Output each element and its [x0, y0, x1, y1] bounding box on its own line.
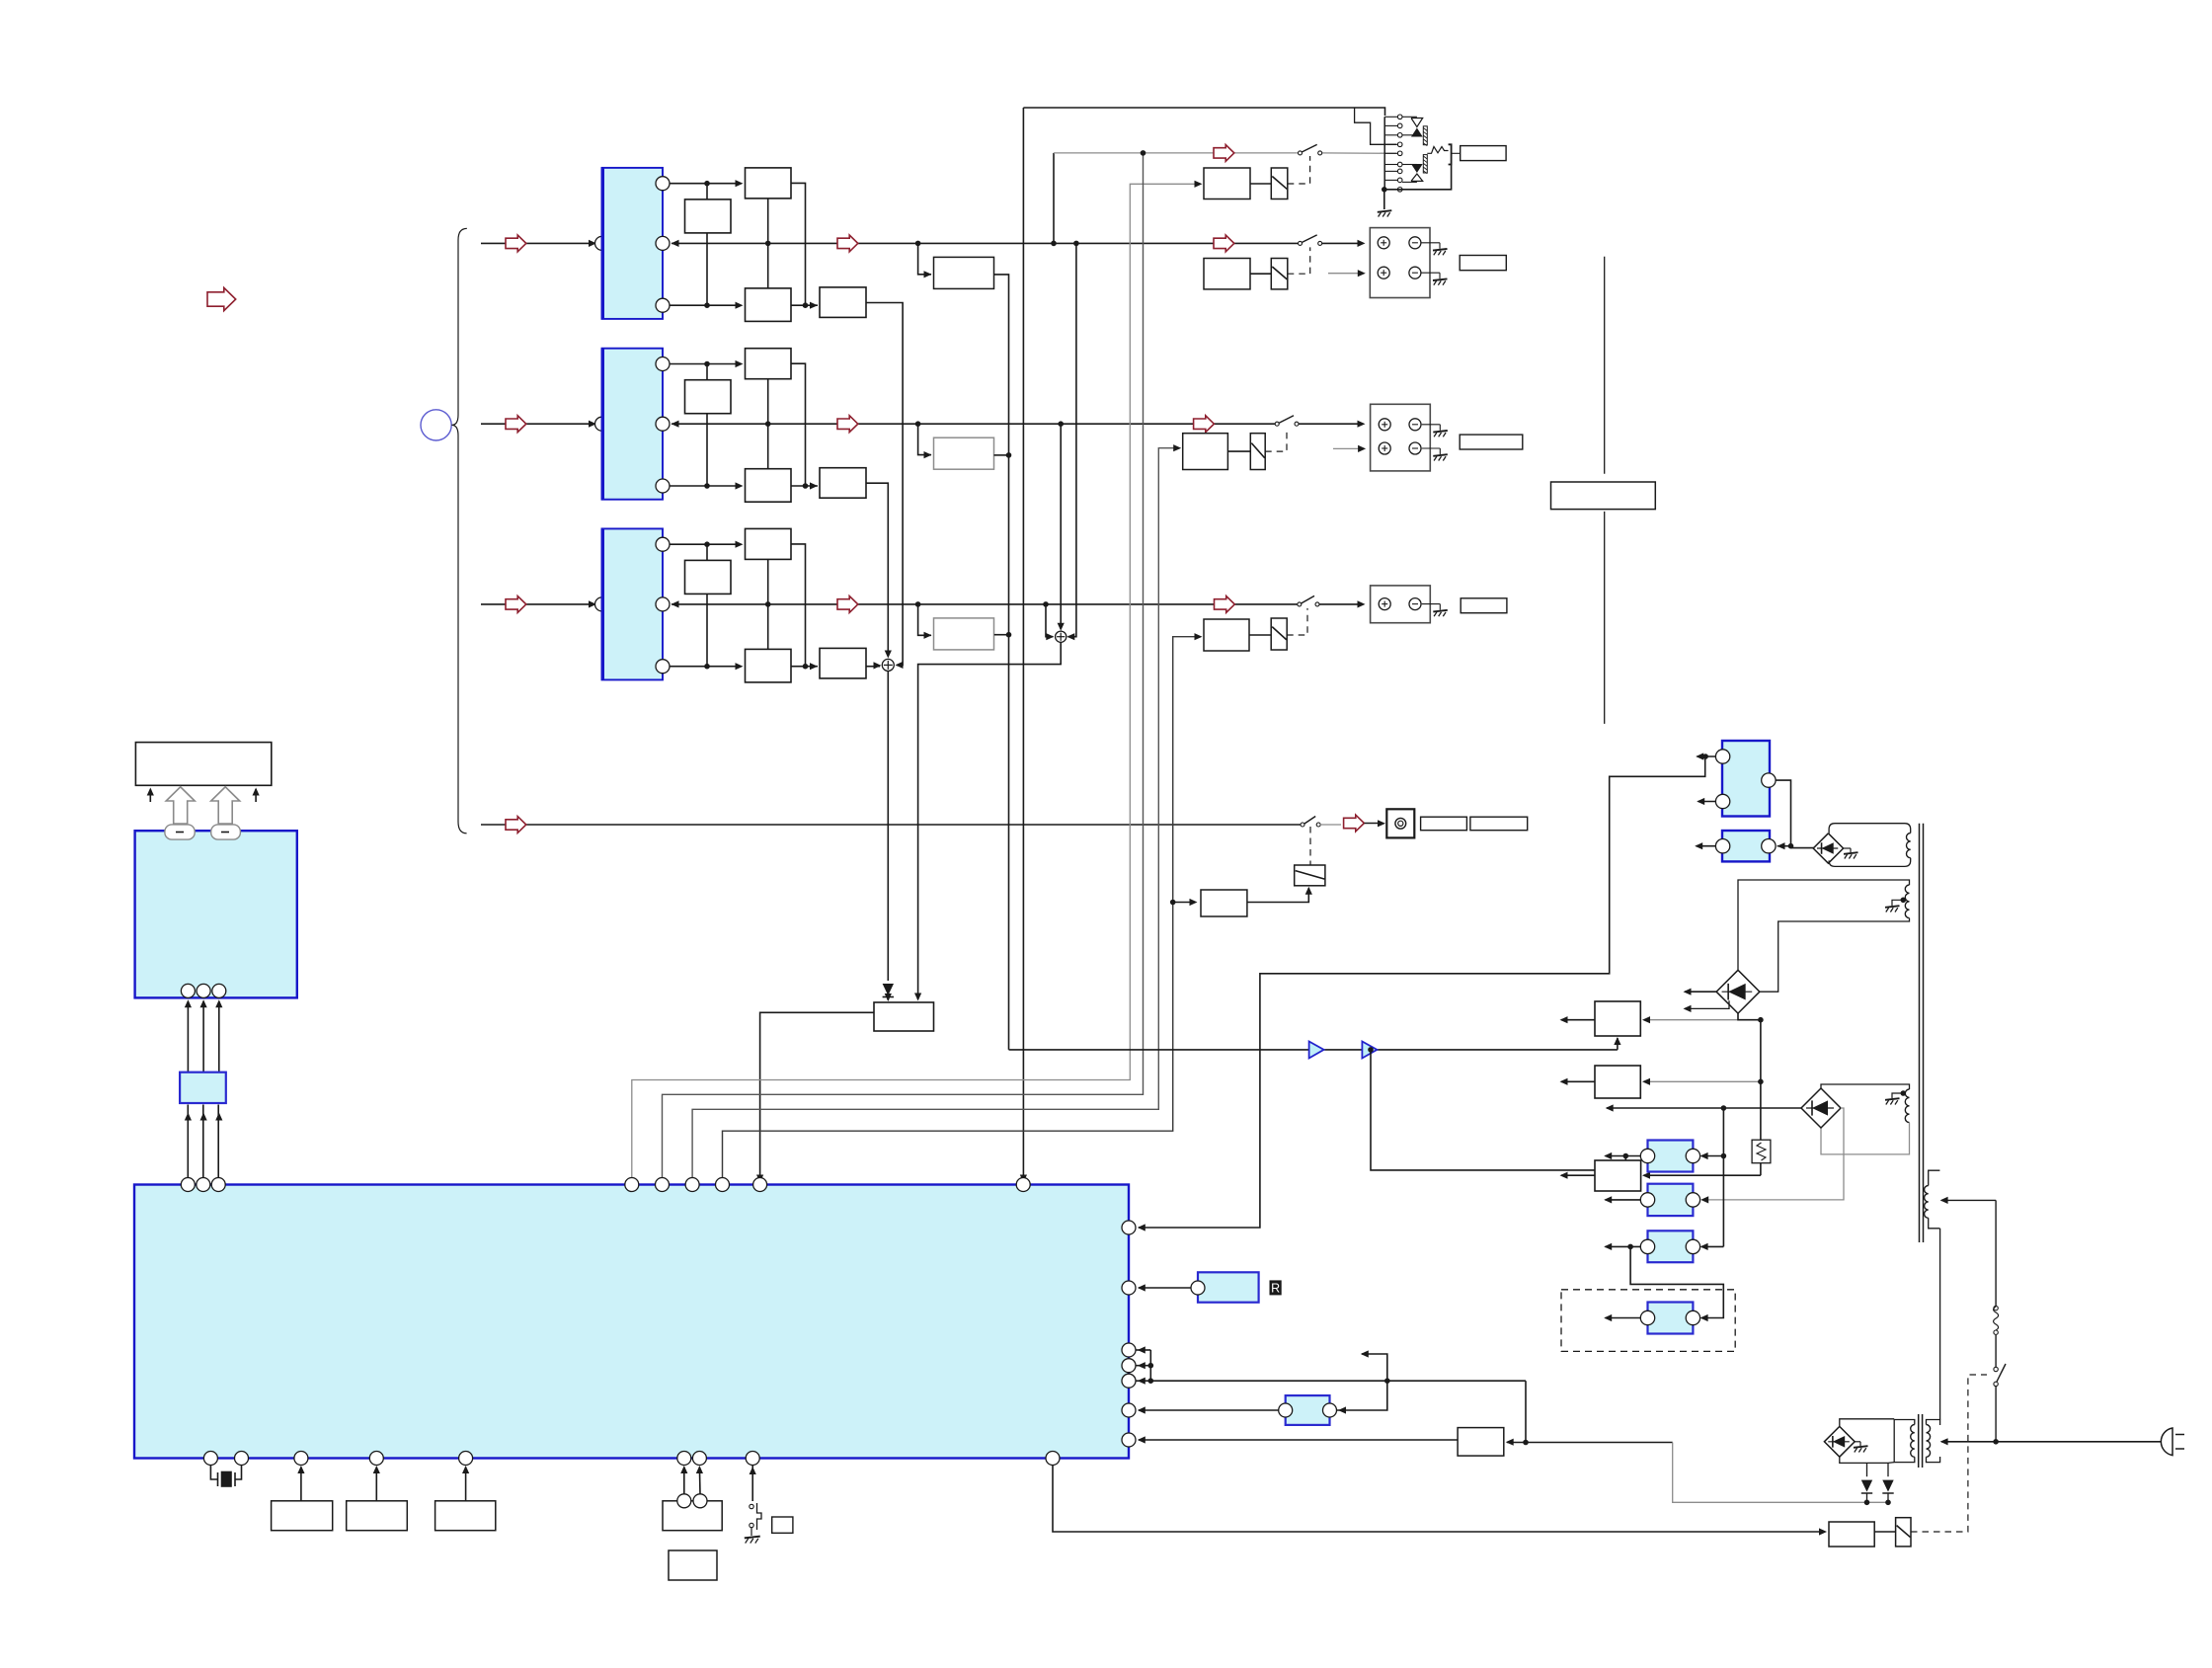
jack insulator hatch bottom [1423, 155, 1427, 173]
jack sleeve return wire [1384, 165, 1452, 190]
display thin arrow right [255, 789, 257, 802]
O3 right wire [1701, 1245, 1724, 1247]
W2 top wire to BR2 [1738, 880, 1910, 970]
terminal ground wire [1421, 242, 1440, 244]
jack insulator hatch top [1423, 126, 1427, 145]
center rail wire [671, 603, 1300, 605]
service block B [347, 1501, 408, 1531]
speaker mute relay [1271, 259, 1288, 289]
wire bottom pin to R3 [670, 666, 740, 668]
wire sleeve to label [1452, 152, 1461, 154]
terminal ground wire [1421, 272, 1440, 274]
bridge rectifier BR1 [1813, 834, 1843, 863]
DSP right pins [1122, 1221, 1136, 1234]
jack switch triangle filled bottom [1411, 164, 1423, 173]
preamp pin out bottom [656, 298, 670, 312]
surround rail out arrow [1194, 416, 1215, 433]
headphone jack ground [1378, 210, 1392, 212]
svg-text:R: R [1271, 1281, 1280, 1295]
W3 top wire to BR3 [1821, 1084, 1910, 1089]
winding W2 coil [1905, 885, 1909, 918]
sum node S3 top input [1060, 424, 1062, 629]
P1 top pin wire [1698, 755, 1716, 757]
wires front-end to filter block [187, 1001, 189, 1072]
terminal plus [1379, 442, 1390, 454]
wire standby feed to DSP [1139, 757, 1705, 1228]
terminal minus [1409, 442, 1421, 454]
O4 feed jog [1630, 1246, 1723, 1317]
wire mute to relay [1250, 183, 1271, 185]
wire C to DSP [465, 1468, 467, 1501]
display thin arrow left [149, 789, 151, 802]
bus pad 2 [211, 825, 241, 839]
front rail wire [671, 242, 1301, 244]
primary return wire [1939, 1229, 1941, 1420]
subwoofer out arrow [1344, 815, 1365, 832]
terminal plus [1379, 598, 1390, 610]
wire R3 out junction [791, 666, 818, 668]
center rail mid arrow [837, 596, 858, 613]
rectifier diode Da [1866, 1463, 1868, 1476]
power control bus [1150, 1380, 1526, 1382]
W2 center tap [1901, 898, 1907, 904]
wire mute to relay [1227, 450, 1250, 452]
winding W1 coil [1907, 834, 1911, 858]
wire top pin to filter [670, 363, 740, 365]
rectifier diode Db [1887, 1463, 1889, 1476]
bridge rectifier BR2 [1716, 970, 1760, 1013]
terminal plus [1378, 267, 1389, 278]
surge resistor [1752, 1140, 1771, 1163]
preamp block IC [602, 349, 664, 500]
O3 left wire [1606, 1245, 1641, 1247]
V2 input wire [1644, 1080, 1761, 1082]
DSP bottom pins [203, 1452, 217, 1466]
wire sub mute to relay [1247, 888, 1308, 903]
jack switch triangle open top [1411, 119, 1423, 127]
AC detect block [1458, 1428, 1504, 1457]
W3 center tap [1901, 1090, 1907, 1096]
sum node S1 [882, 659, 894, 671]
speaker mute relay [1250, 434, 1265, 470]
wire junction to block R2 [706, 184, 708, 199]
block R1 [746, 528, 792, 559]
wire bottom pin to R3 [670, 485, 740, 487]
relay dashed control [1288, 247, 1310, 274]
winding W3 coil [1905, 1089, 1909, 1123]
bridge rectifier BR4 [1824, 1426, 1855, 1457]
O4 left wire [1606, 1317, 1641, 1319]
standby opto dashed box [1561, 1290, 1735, 1352]
block R2 [685, 560, 732, 594]
jack sleeve bracket [1449, 144, 1452, 164]
standby transformer core [1918, 1414, 1920, 1468]
speaker terminal block [1371, 404, 1431, 471]
speaker cable line [1604, 257, 1606, 474]
wire remote to DSP [1139, 1287, 1191, 1289]
wire R1 right bypass [791, 363, 806, 486]
O1 left wire [1606, 1155, 1641, 1157]
main winding W1 loop [1829, 824, 1911, 834]
speaker cable label [1551, 482, 1656, 510]
T2 primary coil [1911, 1425, 1915, 1458]
preamp pin feedback mid [656, 417, 670, 431]
V2 output arrow [1561, 1080, 1595, 1082]
filter block [180, 1072, 226, 1103]
audio input connector circle [421, 410, 451, 440]
block R3 [746, 469, 792, 503]
block R1 [746, 349, 792, 379]
BR3 main output [1607, 1107, 1801, 1109]
mains line from plug [1941, 1441, 2163, 1443]
key block pins [677, 1494, 691, 1508]
AC plug [2161, 1428, 2172, 1456]
opto feedback block [1286, 1395, 1330, 1425]
remote sensor block [1198, 1272, 1259, 1302]
wire junction to block R2 [706, 544, 708, 560]
V1 input wire [1644, 1019, 1761, 1021]
input arrow [506, 596, 526, 613]
wires filter to DSP [187, 1105, 189, 1182]
preamp pin feedback mid [656, 236, 670, 250]
AC sense line to transformer [1673, 1443, 1888, 1503]
front-end IC block [135, 831, 297, 997]
T2 secondary coil [1927, 1425, 1931, 1458]
subwoofer input arrow [506, 817, 526, 834]
terminal plus [1379, 419, 1390, 431]
level bus ch1 segment [994, 275, 1009, 1050]
wire R2 to bottom junction [706, 233, 708, 305]
mains fuse [1994, 1330, 1998, 1334]
wire R1 to R3 vertical [767, 379, 769, 469]
BR3 to opto feed [1702, 1108, 1845, 1200]
wire mute to relay [1250, 273, 1271, 275]
preamp pin out top [656, 177, 670, 191]
headphone line L2 post switch [1320, 152, 1396, 154]
relay dashed control [1287, 608, 1307, 635]
BR1 ground [1844, 852, 1858, 854]
block R4 [820, 287, 866, 318]
wire R2 to bottom junction [706, 414, 708, 486]
V3 output arrow [1561, 1174, 1595, 1176]
headphone line L1 top [1023, 108, 1384, 116]
terminal ground [1433, 278, 1448, 280]
speaker terminal block [1370, 228, 1430, 298]
headphone mute relay [1271, 168, 1288, 199]
headphone jack contacts [1384, 116, 1397, 118]
power button [751, 1466, 753, 1502]
wire AC line to AC detect [1507, 1442, 1673, 1444]
speaker switch [1298, 602, 1302, 606]
speaker label box [1460, 435, 1523, 449]
rail junction to level block [918, 243, 931, 274]
remote sensor pin [1191, 1281, 1205, 1295]
wire to P2 right pin [1777, 845, 1791, 847]
opto coupler O1 [1648, 1141, 1694, 1172]
speaker mute amp [1204, 259, 1250, 289]
sub mute amp [1201, 890, 1247, 916]
wire opto to power bus [1337, 1381, 1387, 1410]
V3 input wire [1644, 1174, 1761, 1176]
sub mute relay [1295, 865, 1325, 886]
wire A to DSP [300, 1468, 302, 1501]
rail junction to level block [918, 604, 931, 635]
W3 ground [1885, 1098, 1900, 1100]
W2 bottom wire to BR2 [1760, 918, 1910, 993]
terminal ground [1433, 610, 1448, 612]
headphone gray line L2 [1054, 152, 1301, 154]
front-end pins bottom [181, 984, 195, 997]
DSP route to center and sub mutes [723, 637, 1201, 1181]
regulator V3 [1595, 1160, 1641, 1191]
terminal ground wire [1422, 447, 1441, 449]
wire R1 right bypass [791, 544, 806, 667]
wire switch to terminal [1319, 603, 1362, 605]
BR1 ground stub [1844, 847, 1851, 849]
wire R3 out junction [791, 304, 818, 306]
wire R1 right bypass [791, 183, 806, 305]
wire switch to terminal [1322, 242, 1362, 244]
transformer core [1919, 824, 1921, 1242]
wire junction to block R2 [706, 364, 708, 380]
speaker label box [1460, 256, 1506, 271]
front rail tap to headphone line [1053, 153, 1055, 244]
O2 left wire [1606, 1199, 1641, 1201]
ch2 R4 output wire to sum node S1 [866, 483, 888, 656]
bus hollow arrow 2 [211, 787, 240, 824]
speaker mute relay [1271, 618, 1287, 650]
level block R5 [934, 257, 994, 288]
terminal minus [1409, 267, 1421, 278]
O1 right wire [1701, 1155, 1724, 1157]
subwoofer line wire [481, 824, 1303, 826]
ch1 R4 output wire to sum node S1 [866, 303, 903, 666]
opto feed drop [1722, 1108, 1724, 1246]
headphone jack common bar [1383, 117, 1385, 190]
wire R3 out junction [791, 485, 818, 487]
wire bottom pin to R3 [670, 304, 740, 306]
jack switch triangle open bottom [1411, 174, 1423, 181]
wire opto to DSP [1139, 1409, 1279, 1411]
key block F [669, 1550, 717, 1580]
mains switch [1995, 1387, 1997, 1442]
opto coupler O2 [1648, 1184, 1694, 1216]
relay dashed control to switch [1288, 156, 1310, 184]
level bus ch3 join [994, 634, 1009, 636]
preamp pin out top [656, 357, 670, 371]
P1 right pin to bridge [1776, 780, 1790, 846]
jack ring feed jog [1355, 108, 1396, 145]
standby supply block P2 [1722, 831, 1770, 861]
wire top pin to filter [670, 183, 740, 185]
wire arrow to sub jack [1365, 823, 1382, 825]
service block C [435, 1501, 496, 1531]
key block D [663, 1501, 722, 1531]
jack tip resistor zigzag [1427, 147, 1448, 154]
DSP route to headphone mute [632, 184, 1200, 1181]
terminal minus [1409, 419, 1421, 431]
feedback rail arrowhead [671, 421, 679, 428]
opto coupler O3 [1648, 1231, 1694, 1262]
wire dot to bridge BR1 [1791, 847, 1815, 849]
jack contact wires to tip/ring [1402, 116, 1417, 118]
terminal ground wire [1422, 603, 1441, 605]
feedback rail arrowhead [671, 600, 679, 607]
speaker mute amp [1204, 619, 1249, 651]
surround rail wire [671, 423, 1277, 425]
regulator V1 [1595, 1001, 1640, 1036]
DSP top pins [181, 1178, 195, 1192]
W2 ground [1885, 906, 1900, 908]
BR4 bottom rail [1840, 1457, 1888, 1463]
headphone line L1 drop to DSP [1022, 108, 1024, 1181]
input arrow [506, 235, 526, 252]
block R2 [685, 380, 732, 414]
BR2 output arrow 1 [1685, 991, 1716, 993]
input wire [481, 242, 592, 244]
terminal ground wire [1422, 424, 1441, 426]
headphone label box [1461, 146, 1506, 161]
remote badge [1270, 1280, 1282, 1295]
speaker label box [1461, 598, 1507, 613]
terminal ground [1433, 454, 1448, 456]
headphone line out arrow [1214, 145, 1234, 162]
bass sum block [874, 1002, 934, 1031]
buffer triangle 1 [1309, 1042, 1324, 1059]
BR4 ground stub [1855, 1441, 1860, 1443]
jack switch triangle filled top [1411, 128, 1423, 137]
wire bus to regulator V1 [1617, 1038, 1619, 1050]
wires keys to DSP [683, 1468, 685, 1494]
power button ground [745, 1537, 760, 1539]
sub mute feed junction [1170, 900, 1176, 906]
service block A [272, 1501, 333, 1531]
wire driver to relay [1874, 1531, 1895, 1533]
sub label box 2 [1470, 817, 1528, 831]
DSP route to surround mute [692, 448, 1179, 1181]
speaker terminal block [1371, 586, 1431, 623]
rail junction to level block [918, 424, 931, 454]
S1 output wire [887, 671, 889, 981]
preamp pin feedback mid [656, 597, 670, 611]
lower terminal feed [1333, 447, 1363, 449]
input brace [451, 228, 466, 833]
W3 bottom wire to BR3 [1821, 1123, 1910, 1154]
power relay driver block [1829, 1522, 1874, 1547]
power control branch arrow [1362, 1354, 1387, 1381]
bus pad 1 [165, 825, 195, 839]
preamp pin out bottom [656, 479, 670, 493]
wire top pin to filter [670, 543, 740, 545]
input arrow [506, 416, 526, 433]
jack ground wire [1383, 190, 1385, 209]
center rail out arrow [1215, 596, 1235, 613]
speaker switch [1299, 241, 1303, 245]
sum node S3 input from center rail [1046, 604, 1054, 637]
speaker switch [1275, 422, 1279, 426]
legend input arrow [207, 287, 236, 310]
headphone switch [1299, 151, 1303, 155]
front rail out arrow [1214, 235, 1234, 252]
BR4 top wire [1840, 1419, 1894, 1427]
subwoofer output jack [1386, 809, 1414, 837]
regulator V2 [1595, 1066, 1640, 1098]
P2 left pin wire [1697, 845, 1716, 847]
sum node S3 right input [1068, 243, 1076, 636]
DSP route to headphone line [663, 153, 1144, 1181]
BR2 to regulator chain [1738, 1013, 1761, 1020]
wire switch to terminal [1299, 423, 1362, 425]
wire DSP to power relay block [1053, 1466, 1825, 1533]
speaker mute amp [1183, 434, 1228, 470]
headphone amp bus [1009, 1049, 1618, 1051]
terminal ground [1433, 249, 1448, 251]
wire R1 to R3 vertical [767, 199, 769, 288]
preamp pin out bottom [656, 660, 670, 674]
input wire [481, 603, 592, 605]
preamp block IC [602, 528, 664, 679]
surround rail mid arrow [837, 416, 858, 433]
power relay dashed control [1911, 1375, 1987, 1532]
lower terminal feed [1328, 273, 1362, 275]
buffer triangle 2 [1362, 1042, 1377, 1059]
relay dashed control [1265, 428, 1287, 451]
block R4 [820, 648, 866, 678]
preamp block left pin [595, 597, 609, 611]
sum node S3 [1056, 631, 1066, 642]
crystal X1 [210, 1466, 217, 1480]
preamp pin out top [656, 537, 670, 551]
diode D1 [883, 984, 894, 995]
chain to V3 [1760, 1163, 1762, 1176]
level bus ch2 join [994, 454, 1009, 456]
terminal ground [1433, 431, 1448, 433]
wire R2 to bottom junction [706, 594, 708, 666]
block R2 [685, 199, 732, 233]
display block [135, 743, 271, 786]
wire R1 to R3 vertical [767, 559, 769, 649]
level block R5 [934, 618, 994, 650]
preamp block left pin [595, 417, 609, 431]
wire diode to bass block [887, 997, 889, 1001]
block R3 [746, 649, 792, 682]
bus hollow arrow 1 [166, 787, 195, 824]
block R1 [746, 168, 792, 199]
input wire [481, 423, 592, 425]
bass block output to DSP [760, 1012, 874, 1181]
P1 low pin wire [1698, 801, 1716, 803]
terminal minus [1409, 237, 1421, 249]
BR2 output arrow 2 [1685, 1000, 1729, 1008]
level block R5 [934, 437, 994, 469]
sub relay dashed control [1309, 827, 1311, 865]
DSP bus pins tie [1136, 1349, 1150, 1351]
terminal plus [1378, 237, 1389, 249]
wire B to DSP [375, 1468, 377, 1501]
wire AC detect to DSP [1139, 1439, 1458, 1441]
block E [772, 1517, 793, 1533]
headphone mute amp [1204, 168, 1250, 199]
power relay [1896, 1518, 1911, 1547]
BR4 ground [1854, 1446, 1868, 1448]
V1 output arrow [1561, 1019, 1595, 1021]
sub label box 1 [1421, 817, 1467, 831]
block R3 [746, 288, 792, 322]
subwoofer post-switch wire [1320, 824, 1341, 826]
wire mute to relay [1249, 634, 1271, 636]
subwoofer switch [1301, 823, 1304, 827]
main primary coil [1925, 1186, 1929, 1219]
